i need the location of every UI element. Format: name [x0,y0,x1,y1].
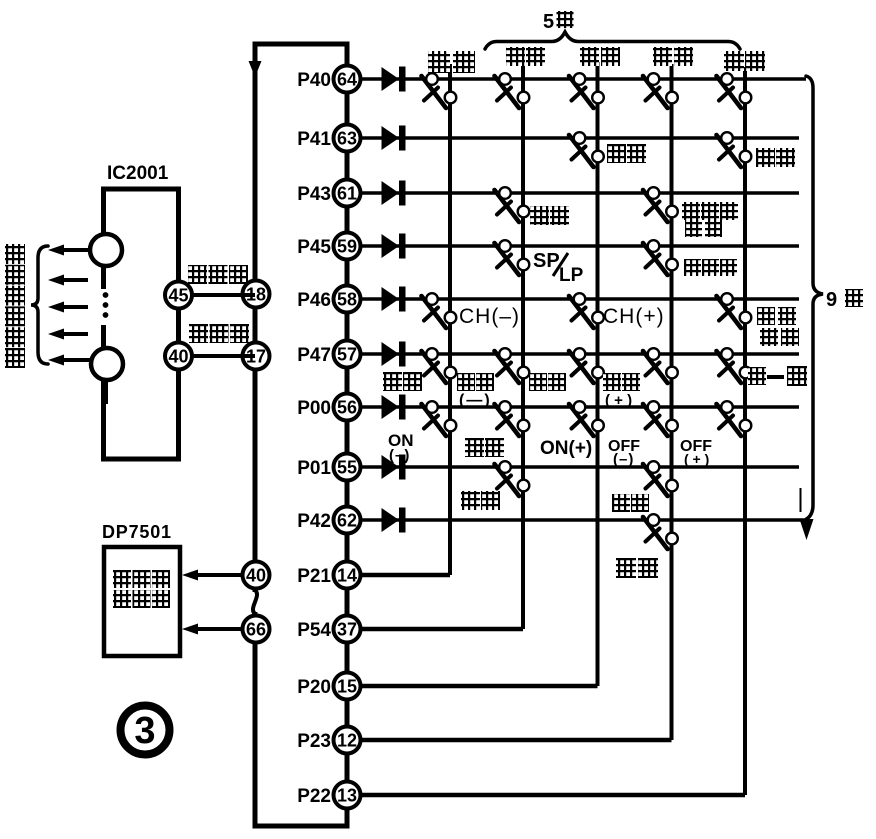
svg-text:40: 40 [168,347,188,367]
svg-text:40: 40 [246,566,266,586]
svg-text:15: 15 [337,677,357,697]
svg-text:66: 66 [246,620,266,640]
svg-text:P40: P40 [297,70,331,91]
svg-text:P41: P41 [297,129,331,150]
svg-text:P46: P46 [297,290,331,311]
svg-text:62: 62 [337,511,357,531]
svg-text:( + ): ( + ) [684,451,709,467]
svg-text:P20: P20 [297,677,331,698]
svg-text:59: 59 [337,237,357,257]
svg-text:14: 14 [337,566,357,586]
svg-text:P22: P22 [297,786,331,807]
svg-text:13: 13 [337,786,357,806]
svg-text:P42: P42 [297,511,331,532]
svg-text:CH(–): CH(–) [459,305,520,328]
svg-text:SP: SP [533,250,560,272]
svg-text:P54: P54 [297,620,331,641]
svg-text:P00: P00 [297,398,331,419]
svg-text:P45: P45 [297,237,331,258]
svg-text:55: 55 [337,458,357,478]
svg-text:5: 5 [543,11,554,33]
svg-text:(–): (–) [389,447,410,464]
svg-text:P01: P01 [297,458,331,479]
svg-text:61: 61 [337,184,357,204]
svg-text:P43: P43 [297,184,331,205]
svg-text:56: 56 [337,398,357,418]
svg-text:3: 3 [134,710,155,752]
svg-text:CH(+): CH(+) [603,305,665,328]
svg-text:12: 12 [337,731,357,751]
svg-text:P23: P23 [297,731,331,752]
svg-text:(—): (—) [459,392,492,409]
svg-text:IC2001: IC2001 [107,163,169,184]
svg-text:63: 63 [337,129,357,149]
svg-text:LP: LP [559,265,584,286]
svg-text:P21: P21 [297,566,331,587]
svg-text:P47: P47 [297,345,331,366]
svg-text:9: 9 [826,289,837,311]
svg-text:DP7501: DP7501 [102,522,172,542]
svg-text:( + ): ( + ) [605,392,632,409]
svg-text:57: 57 [337,345,357,365]
svg-text:45: 45 [168,286,188,306]
svg-text:64: 64 [337,70,357,90]
svg-text:(–): (–) [613,451,634,468]
svg-text:58: 58 [337,290,357,310]
svg-text:ON(+): ON(+) [540,438,592,459]
svg-text:37: 37 [337,620,357,640]
